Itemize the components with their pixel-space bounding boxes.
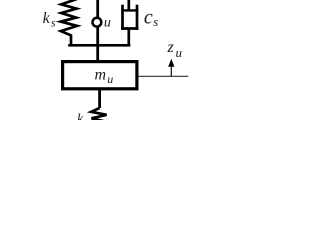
actuator circle u [93, 18, 102, 27]
top connecting bar (wire) [68, 44, 130, 47]
svg-text:c: c [144, 7, 153, 29]
svg-text:z: z [167, 39, 175, 56]
damper piston bar [121, 9, 138, 11]
svg-text:s: s [153, 15, 158, 29]
svg-text:u: u [176, 45, 183, 60]
actuator rod (force input u) [96, 0, 99, 61]
spring k_s (suspension spring) [61, 0, 77, 45]
svg-text:u: u [107, 72, 113, 86]
svg-text:k: k [43, 10, 51, 27]
tire spring k [91, 108, 106, 122]
arrow z_u head [168, 59, 174, 67]
damper rod bottom [127, 29, 130, 46]
damper cylinder bottom [121, 27, 138, 30]
reference line z_u (wire) [139, 75, 189, 77]
mass m_u box [63, 62, 137, 89]
lower rod (wire to tire spring) [98, 89, 101, 109]
svg-text:s: s [51, 18, 56, 30]
damper c_s: piston rod top [127, 0, 130, 12]
svg-text:u: u [104, 15, 111, 30]
svg-text:m: m [95, 67, 107, 84]
damper cylinder left wall [121, 5, 124, 30]
arrow z_u stem [170, 65, 172, 77]
svg-text:k: k [77, 112, 84, 120]
damper cylinder right wall [136, 5, 139, 30]
